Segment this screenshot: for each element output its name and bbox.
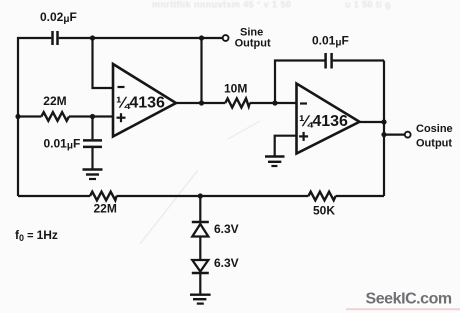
svg-text:22M: 22M: [94, 202, 117, 216]
wire bottom run (R3 to R4): [117, 195, 309, 197]
junction dot top feedback: [90, 35, 95, 40]
ghost scan text top: [152, 0, 391, 10]
junction dot left input row: [15, 114, 20, 119]
zener D2 6.3V: [192, 260, 209, 273]
wire U1 output row to U2 inverting input: [176, 102, 225, 104]
resistor R4 50K: [308, 192, 335, 201]
wire U2 plus input to ground G2: [275, 136, 297, 157]
junction dot zener chain: [198, 193, 203, 198]
wire top run C1 to sine terminal: [59, 37, 223, 39]
terminal cosine output: [405, 132, 411, 138]
svg-text:¼4136: ¼4136: [299, 113, 348, 130]
svg-text:0.02μF: 0.02μF: [40, 10, 77, 25]
svg-text:0.01μF: 0.01μF: [44, 136, 81, 151]
junction dot U2 output: [381, 119, 386, 124]
resistor R3 22M: [90, 192, 117, 201]
svg-text:¼4136: ¼4136: [116, 95, 165, 112]
wire left vertical + top run to C1: [18, 38, 51, 196]
wire C2 branch down from input row: [91, 117, 93, 140]
ground G1: [83, 170, 103, 180]
terminal sine output: [223, 35, 229, 41]
capacitor C3 0.01uF: [326, 53, 332, 69]
svg-text:0.01μF: 0.01μF: [312, 34, 349, 49]
U2 plus pin mark: [299, 132, 308, 141]
ground G2: [265, 157, 285, 167]
svg-text:SeekIC.com: SeekIC.com: [366, 291, 452, 308]
junction dot output row feedback2: [272, 100, 277, 105]
junction dot cosine branch: [381, 132, 386, 137]
wire bottom run (right of R4): [336, 195, 384, 197]
wire feedback riser 2 up and across (left of C3): [275, 61, 325, 104]
U1 minus pin mark: [118, 86, 125, 88]
svg-text:50K: 50K: [313, 204, 335, 218]
wire cosine branch: [384, 134, 405, 136]
U1 plus pin mark: [117, 113, 126, 122]
ground G3: [190, 295, 211, 304]
svg-text:Cosine: Cosine: [416, 123, 453, 135]
capacitor C2 0.01uF: [83, 140, 102, 147]
wire right vertical: [383, 61, 385, 197]
resistor R1 22M: [41, 112, 69, 121]
wire C2 to ground G1: [91, 148, 93, 170]
zener D1 6.3V: [192, 222, 209, 237]
svg-text:Output: Output: [416, 138, 452, 150]
svg-text:10M: 10M: [224, 82, 247, 96]
svg-text:u 1 50 ti g: u 1 50 ti g: [345, 0, 391, 10]
watermark underline: [346, 308, 460, 310]
wire U1 non-inverting input row (left of R1): [18, 115, 41, 117]
op-amp U2: [297, 84, 360, 154]
op-amp U1: [113, 64, 176, 137]
ghost bleed-through marks: [140, 121, 260, 244]
resistor R2 10M: [225, 99, 249, 108]
svg-text:Output: Output: [235, 37, 271, 49]
svg-text:mnrtlflik nnnuvtsm 45 ° v 1: mnrtlflik nnnuvtsm 45 ° v 1 50: [152, 0, 291, 10]
wire U1 non-inverting input row (right of R1): [69, 115, 113, 117]
wire 10M to U2: [250, 102, 297, 104]
wire feedback riser from top to U1 inverting input: [93, 38, 114, 88]
wire between zeners: [199, 237, 201, 260]
svg-text:6.3V: 6.3V: [214, 222, 239, 236]
wire sine output riser: [200, 38, 202, 103]
capacitor C1 0.02uF: [53, 31, 58, 45]
wire zener chain top: [199, 196, 201, 221]
U2 minus pin mark: [300, 102, 307, 104]
svg-text:22M: 22M: [43, 94, 66, 108]
wire zener D2 to ground G3: [199, 274, 201, 295]
junction dot output row sine: [199, 100, 204, 105]
junction dot top sine riser: [199, 35, 204, 40]
junction dot C2 branch: [90, 114, 95, 119]
wire feedback top right of C3: [333, 59, 384, 61]
wire bottom run (left of R3): [18, 195, 90, 197]
wire U2 output stub: [360, 121, 385, 123]
svg-text:6.3V: 6.3V: [214, 256, 239, 270]
